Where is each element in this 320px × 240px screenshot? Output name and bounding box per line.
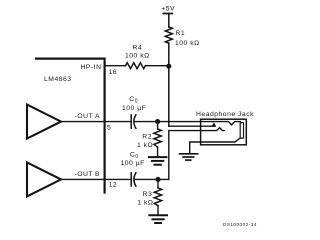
svg-text:1 kΩ: 1 kΩ bbox=[137, 200, 153, 207]
svg-text:R4: R4 bbox=[133, 44, 143, 51]
svg-text:100 µF: 100 µF bbox=[121, 160, 145, 167]
svg-text:HP-IN: HP-IN bbox=[81, 64, 102, 71]
svg-text:Headphone Jack: Headphone Jack bbox=[196, 111, 254, 118]
svg-text:100 kΩ: 100 kΩ bbox=[175, 40, 200, 47]
svg-text:DS100002-34: DS100002-34 bbox=[223, 222, 257, 227]
svg-text:LM4863: LM4863 bbox=[44, 76, 72, 83]
svg-text:16: 16 bbox=[109, 69, 118, 76]
svg-text:+5V: +5V bbox=[161, 6, 175, 13]
svg-text:-OUT B: -OUT B bbox=[75, 171, 101, 178]
svg-text:1 kΩ: 1 kΩ bbox=[137, 142, 153, 149]
svg-text:100 µF: 100 µF bbox=[122, 105, 146, 112]
svg-text:12: 12 bbox=[109, 181, 118, 188]
svg-text:100 kΩ: 100 kΩ bbox=[125, 52, 150, 59]
svg-text:R1: R1 bbox=[176, 30, 186, 37]
svg-text:R2: R2 bbox=[142, 134, 152, 141]
svg-text:-OUT A: -OUT A bbox=[75, 113, 101, 120]
svg-text:R3: R3 bbox=[143, 191, 153, 198]
svg-text:5: 5 bbox=[107, 124, 111, 131]
